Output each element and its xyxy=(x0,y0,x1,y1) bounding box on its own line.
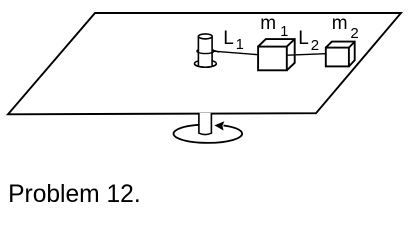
string pinch line xyxy=(212,50,219,52)
base ellipse front arc xyxy=(195,64,217,68)
cylinder left side xyxy=(197,36,199,66)
wrap front arc xyxy=(197,51,214,54)
cube m1 fill xyxy=(258,39,295,70)
cylinder right side xyxy=(211,36,213,66)
svg-text:L: L xyxy=(223,28,234,49)
cylinder body xyxy=(198,36,212,66)
svg-text:2: 2 xyxy=(350,25,358,42)
rotation arrowhead xyxy=(214,121,224,130)
svg-text:2: 2 xyxy=(311,37,319,54)
string L1 xyxy=(214,51,259,55)
cube m2 fill xyxy=(326,42,355,67)
svg-text:m: m xyxy=(332,13,348,34)
svg-text:m: m xyxy=(260,13,276,34)
cylinder base ellipse xyxy=(195,60,217,67)
svg-text:L: L xyxy=(298,28,309,49)
string L2 xyxy=(287,54,326,56)
svg-text:1: 1 xyxy=(236,37,244,53)
shaft below table xyxy=(199,113,212,135)
string wrap ellipse (full, back hidden by body) xyxy=(197,49,214,54)
svg-text:Problem 12.: Problem 12. xyxy=(8,181,141,206)
cube m2 edges xyxy=(326,42,355,67)
table top (parallelogram surface) xyxy=(8,13,401,114)
rotation arrow ellipse arc xyxy=(174,125,243,143)
svg-text:1: 1 xyxy=(280,24,288,40)
cube m1 edges xyxy=(258,39,295,70)
cylinder top ellipse xyxy=(198,34,212,39)
